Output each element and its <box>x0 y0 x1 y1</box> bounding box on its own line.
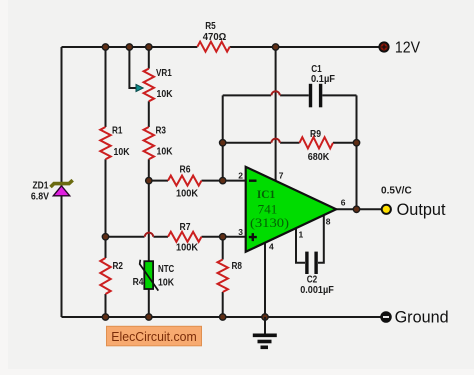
op-amp U1 IC1 741 <box>246 167 337 252</box>
svg-text:8: 8 <box>326 217 331 227</box>
svg-text:IC1: IC1 <box>257 189 276 201</box>
svg-text:6.8V: 6.8V <box>31 192 49 203</box>
capacitor C2 <box>305 252 308 274</box>
svg-text:VR1: VR1 <box>156 68 172 79</box>
svg-text:100K: 100K <box>176 189 199 200</box>
svg-text:10K: 10K <box>114 147 131 158</box>
svg-text:10K: 10K <box>158 278 175 289</box>
capacitor C1 <box>309 84 312 108</box>
svg-text:10K: 10K <box>157 147 174 158</box>
wire left rail <box>61 47 63 317</box>
wire R1/R2 branch <box>105 47 107 317</box>
wire C1 row <box>223 94 357 96</box>
svg-text:0.5V/C: 0.5V/C <box>381 186 412 197</box>
svg-text:Ground: Ground <box>395 308 449 327</box>
svg-text:R7: R7 <box>180 222 191 233</box>
svg-text:R4: R4 <box>133 277 144 288</box>
resistor R7 <box>168 232 202 242</box>
svg-text:R1: R1 <box>112 126 123 137</box>
svg-text:0.1µF: 0.1µF <box>311 74 335 85</box>
resistor R6 <box>168 176 202 186</box>
svg-text:ZD1: ZD1 <box>33 181 49 192</box>
wire feedback left vertical <box>222 95 224 180</box>
svg-text:R6: R6 <box>180 165 191 176</box>
resistor R9 <box>300 137 334 148</box>
wire R8 branch <box>222 237 224 317</box>
node output junction <box>353 206 359 212</box>
wire pin 4 <box>264 244 266 318</box>
wire top rail <box>62 46 380 48</box>
node R9 left junction <box>220 140 226 146</box>
wire R6 row to pin 2 <box>149 180 246 182</box>
svg-text:6: 6 <box>341 198 346 208</box>
node R6 left junction <box>146 177 152 183</box>
svg-text:(3130): (3130) <box>250 215 289 230</box>
resistor R5 <box>197 42 229 52</box>
junction dots top rail <box>102 44 278 50</box>
svg-text:470Ω: 470Ω <box>203 32 227 43</box>
wire pin 7 supply <box>275 47 277 181</box>
potentiometer VR1 <box>144 69 154 102</box>
terminal Ground <box>381 312 391 322</box>
resistor R2 <box>100 258 110 294</box>
resistor R3 <box>144 127 154 159</box>
svg-text:1: 1 <box>299 230 304 240</box>
svg-text:4: 4 <box>269 242 274 252</box>
svg-text:2: 2 <box>238 170 243 180</box>
wire pin 8 to C2 <box>318 216 324 263</box>
hop C1 wire over pin7 line <box>271 91 279 95</box>
svg-text:R3: R3 <box>156 126 167 137</box>
wire pin 1 to C2 <box>296 229 305 263</box>
ElecCircuit.com watermark <box>107 326 202 346</box>
wire pin 6 output <box>336 208 381 210</box>
svg-text:10K: 10K <box>157 89 174 100</box>
node pin3 junction <box>220 234 226 240</box>
svg-text:680K: 680K <box>308 152 330 163</box>
svg-text:NTC: NTC <box>158 264 174 275</box>
svg-text:100K: 100K <box>176 243 199 254</box>
junction dots bottom rail <box>102 314 268 320</box>
svg-text:12V: 12V <box>395 39 421 56</box>
wire R7 row to pin 3 <box>106 236 246 238</box>
wire bottom rail <box>62 316 381 318</box>
svg-text:7: 7 <box>279 170 284 180</box>
svg-text:R5: R5 <box>205 21 216 32</box>
zener diode ZD1 <box>53 186 69 196</box>
ground <box>264 317 266 334</box>
wire feedback right vertical <box>356 95 358 209</box>
wire VR1 wiper branch <box>129 47 136 88</box>
hop R7 wire over NTC line <box>145 233 153 237</box>
svg-text:0.001µF: 0.001µF <box>300 285 334 296</box>
thermistor R4 NTC <box>144 261 153 289</box>
svg-text:R8: R8 <box>232 261 243 272</box>
svg-text:Output: Output <box>397 200 446 219</box>
terminal Output <box>382 205 391 214</box>
wire VR1/R3/NTC branch <box>148 47 150 317</box>
svg-text:3: 3 <box>238 227 243 237</box>
node R9 right junction <box>353 140 359 146</box>
node pin2 junction <box>220 177 226 183</box>
node R7 left junction <box>102 234 108 240</box>
hop R9 wire over pin7 line <box>271 139 279 143</box>
resistor R1 <box>100 127 110 159</box>
svg-text:R9: R9 <box>310 129 321 140</box>
wire R9 row <box>223 142 357 144</box>
resistor R8 <box>218 260 228 293</box>
terminal 12V <box>379 42 388 51</box>
svg-text:ElecCircuit.com: ElecCircuit.com <box>111 329 196 344</box>
svg-text:R2: R2 <box>113 261 124 272</box>
